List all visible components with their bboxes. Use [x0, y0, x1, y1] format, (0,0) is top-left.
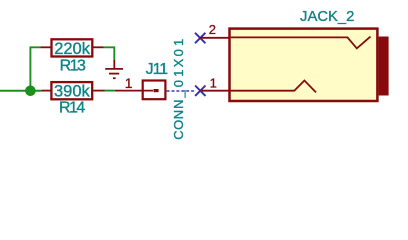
svg-text:CONN_01X01: CONN_01X01 [171, 39, 186, 140]
no-connect X (jack pin 2) [195, 33, 205, 43]
wire [105, 90, 115, 92]
jack pin 2 [200, 22, 370, 48]
jack pin 1 [200, 75, 316, 92]
svg-text:2: 2 [209, 22, 216, 37]
pin1 contact line [231, 81, 316, 93]
svg-text:1: 1 [125, 75, 133, 91]
no-connect dashed line [167, 90, 195, 92]
ground [105, 60, 123, 78]
resistor R13 [40, 39, 103, 74]
junction dot [25, 86, 36, 97]
svg-text:J11: J11 [146, 61, 169, 78]
wire [30, 47, 40, 90]
no-connect X (jack pin 1) [195, 86, 205, 96]
svg-text:JACK_2: JACK_2 [300, 9, 354, 25]
connector J11 [115, 39, 186, 140]
jack JACK_2 body [230, 9, 389, 101]
pin2 contact line [231, 37, 371, 49]
wire [0, 90, 42, 92]
svg-text:R14: R14 [59, 100, 85, 117]
resistor R14 [42, 82, 105, 117]
sleeve block [379, 37, 389, 96]
wire [104, 47, 115, 60]
svg-text:390k: 390k [54, 82, 91, 100]
svg-text:R13: R13 [60, 57, 86, 74]
svg-text:220k: 220k [54, 40, 91, 58]
svg-text:1: 1 [210, 75, 217, 90]
